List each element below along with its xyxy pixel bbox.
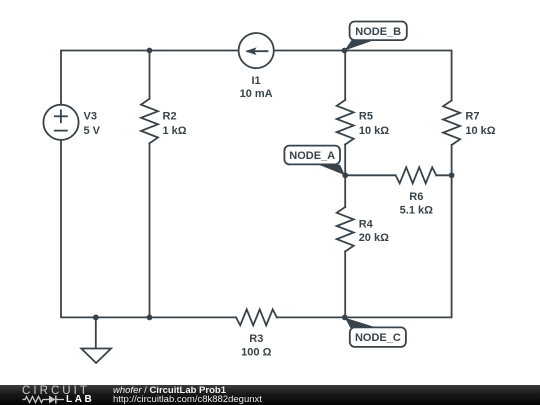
resistor R6 5.1 kOhm horizontal [396,167,437,183]
svg-text:5 V: 5 V [84,125,101,137]
wire bottom-right: R3 right end to bottom-right corner up to R7 bottom [277,145,452,317]
resistor R2 1 kOhm [141,99,158,144]
node B junction [342,48,348,54]
svg-text:5.1 kΩ: 5.1 kΩ [400,205,433,217]
wire R2 branch top lead [149,51,151,99]
node A junction [342,172,348,178]
svg-text:1 kΩ: 1 kΩ [163,125,187,137]
svg-text:NODE_C: NODE_C [355,332,401,344]
junction ground [93,315,99,321]
footer text [113,386,262,405]
wire R5 bottom lead to NODE_A [344,145,346,176]
wire top-left: V3 top corner to I1 left terminal [61,51,239,105]
svg-text:10 mA: 10 mA [240,88,273,100]
ground symbol [81,349,111,364]
svg-text:20 kΩ: 20 kΩ [359,232,389,244]
logo resistor squiggle [23,397,47,403]
node NODE_B label [345,22,407,51]
svg-text:R6: R6 [409,191,423,203]
svg-text:R3: R3 [249,333,263,345]
svg-text:R2: R2 [163,111,177,123]
svg-text:NODE_B: NODE_B [355,26,401,38]
wire R5 branch top lead from NODE_B [344,51,346,101]
voltage source V3 5V [43,105,78,140]
wire ground stem [95,317,97,348]
svg-text:I1: I1 [252,75,261,87]
footer bar [0,385,540,405]
svg-text:R5: R5 [359,111,373,123]
current source I1 10mA [239,33,274,68]
junction R6/R7 [449,172,455,178]
svg-text:R7: R7 [465,111,479,123]
wire R2 branch bottom lead [149,143,151,317]
svg-text:100 Ω: 100 Ω [241,347,271,359]
resistor R4 20 kOhm [337,207,354,252]
svg-text:NODE_A: NODE_A [289,150,335,162]
junction R2 bottom [147,315,153,321]
wire left-bottom: V3 bottom to bottom-left corner [61,140,236,318]
node NODE_A label [284,146,345,176]
wire R6 left lead from NODE_A [345,174,395,176]
svg-text:R4: R4 [359,219,374,231]
wire R4 top lead from NODE_A [344,175,346,207]
resistor R3 100 Ohm horizontal [236,309,277,325]
node C junction [342,315,348,321]
node NODE_C label [345,318,406,347]
CircuitLab logo [22,385,132,405]
wire R6 right lead to R7 column junction [436,174,451,176]
resistor R5 10 kOhm [337,100,354,145]
svg-text:10 kΩ: 10 kΩ [465,125,495,137]
svg-text:10 kΩ: 10 kΩ [359,125,389,137]
junction R2 top [147,48,153,54]
resistor R7 10 kOhm [443,101,460,146]
wire R4 bottom lead to NODE_C [344,252,346,318]
logo diode [49,396,56,404]
wire top-right: I1 right terminal to NODE_B to top-right corner [274,51,452,101]
svg-text:V3: V3 [84,111,97,123]
